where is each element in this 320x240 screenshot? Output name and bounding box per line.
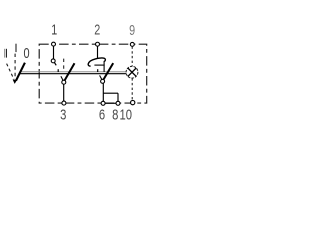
terminal 6 circle: [101, 101, 105, 105]
svg-text:2: 2: [94, 21, 100, 38]
right moving lever: [103, 63, 113, 80]
wire rail upper line: [20, 71, 126, 73]
lamp X stroke 1: [128, 68, 136, 76]
svg-text:1: 1: [51, 21, 57, 38]
dashed wire lamp to terminal 10: [131, 78, 133, 100]
lever solid arm (actuator): [16, 63, 25, 81]
lever dashed II position arm: [7, 64, 14, 80]
svg-text:8: 8: [112, 106, 118, 123]
left pivot circle: [62, 80, 66, 84]
svg-text:9: 9: [129, 21, 135, 38]
wire pivot down: [102, 83, 104, 101]
label 6: [99, 106, 105, 123]
label II (position): [5, 49, 7, 58]
wire pivot to terminal 3: [63, 84, 65, 101]
lever dashed neutral position line: [14, 54, 16, 78]
terminal 2 circle: [96, 42, 100, 46]
label 8: [112, 106, 118, 123]
mechanical coupling dashes (left contact): [63, 59, 65, 72]
right pivot circle: [101, 79, 105, 83]
svg-text:6: 6: [99, 106, 105, 123]
wiper vertical link: [103, 61, 105, 72]
terminal 1 circle: [52, 42, 56, 46]
left thin arm to rail: [61, 76, 63, 81]
terminal 8 circle: [116, 101, 120, 105]
label 2: [94, 21, 100, 38]
enclosure dash-dot box: [39, 44, 147, 103]
label 0 (position): [23, 45, 29, 62]
terminal 9 circle: [130, 42, 134, 46]
left moving lever: [64, 63, 74, 81]
label I (position): [15, 44, 17, 52]
terminal 2 lead: [97, 46, 99, 58]
wiper contact curve: [88, 58, 105, 66]
indicator lamp circle: [126, 66, 138, 78]
label 9: [129, 21, 135, 38]
terminal 3 circle: [62, 101, 66, 105]
wire bracket to terminal 8: [117, 93, 119, 101]
terminal 10 circle: [131, 100, 135, 104]
lamp X stroke 2: [128, 68, 136, 76]
rail stud (left contact): [57, 69, 59, 72]
wire bracket horizontal: [103, 92, 118, 94]
wire rail lower line: [20, 73, 127, 75]
fixed contact bar: [94, 64, 104, 66]
contact finger of terminal 1: [54, 62, 56, 65]
wire terminal 6 to terminal 8 along border: [104, 102, 117, 104]
dashed wire terminal 9 to lamp: [131, 47, 133, 67]
svg-text:3: 3: [60, 106, 66, 123]
label 10: [120, 106, 133, 123]
terminal 1 lead: [53, 46, 55, 59]
fixed contact circle below terminal 1: [51, 59, 55, 63]
right thin arm to rail: [100, 75, 103, 80]
label 1: [51, 21, 57, 38]
svg-text:0: 0: [23, 45, 29, 62]
lever arrowhead: [13, 80, 18, 84]
label 3: [60, 106, 66, 123]
rail stud (right contact): [97, 69, 99, 72]
svg-text:10: 10: [120, 106, 133, 123]
